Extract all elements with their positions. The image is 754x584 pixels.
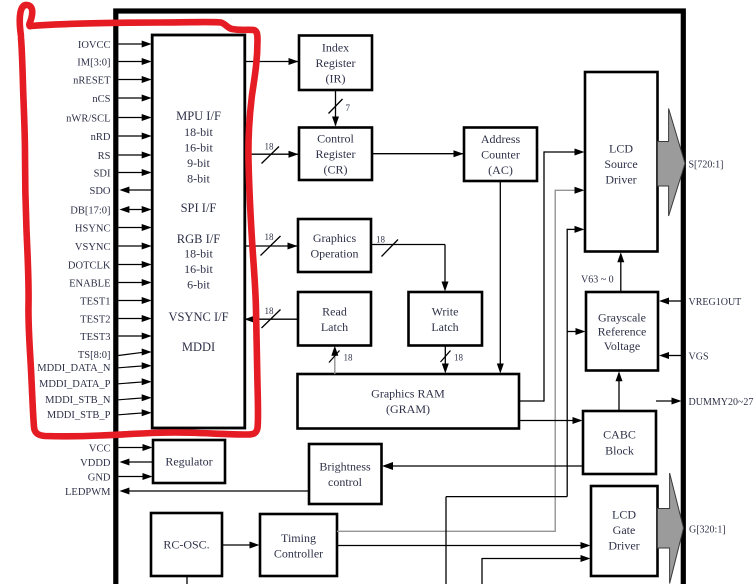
svg-text:VGS: VGS	[689, 352, 709, 363]
gray bus arrow G[320:1]	[658, 473, 684, 584]
wire RC-OSC. bottom stub	[186, 576, 188, 584]
bus slash 18 WL-GRAM	[441, 351, 451, 363]
svg-text:nRD: nRD	[91, 132, 111, 143]
svg-text:RC-OSC.: RC-OSC.	[163, 538, 209, 552]
bus slash 18 GO-WL	[382, 240, 399, 257]
wire GRAM to LCD Source Driver (via x=544)	[519, 400, 544, 402]
svg-text:TEST1: TEST1	[80, 297, 110, 308]
block Brightness control	[309, 444, 382, 504]
svg-text:18: 18	[454, 353, 464, 363]
wire pin VCC	[118, 447, 145, 449]
svg-text:IOVCC: IOVCC	[78, 40, 111, 51]
svg-text:18: 18	[344, 353, 354, 363]
svg-text:MDDI: MDDI	[182, 340, 215, 354]
svg-text:18: 18	[376, 235, 386, 245]
svg-text:nWR/SCL: nWR/SCL	[66, 114, 110, 125]
svg-text:S[720:1]: S[720:1]	[689, 160, 724, 171]
wire Timing Controller to LCD Source Driver (gray)	[337, 530, 555, 532]
wire Read Latch to MPU VSYNC I/F with 18-bus	[254, 318, 298, 320]
wire LEDPWM from Brightness control	[127, 490, 309, 492]
wire pin MDDI_STB_N	[118, 398, 144, 400]
svg-text:18: 18	[265, 306, 275, 316]
wire pin VDDD	[127, 461, 153, 463]
svg-text:TEST2: TEST2	[80, 315, 110, 326]
svg-text:LCDGateDriver: LCDGateDriver	[608, 508, 639, 553]
svg-text:ReadLatch: ReadLatch	[321, 304, 348, 334]
wire pin MDDI_STB_P	[118, 413, 144, 415]
wire MPU to Control Register with 18-bus	[245, 153, 291, 155]
block CABC Block	[583, 411, 656, 474]
wire pin IOVCC	[118, 43, 144, 45]
svg-text:18: 18	[265, 232, 275, 242]
wire Control Register to Address Counter	[372, 153, 455, 155]
svg-text:IM[3:0]: IM[3:0]	[77, 58, 110, 69]
wire DUMMY20~27 output	[656, 400, 675, 402]
wire lower net to LCD Gate Driver (via x=482)	[481, 558, 483, 584]
svg-text:MPU I/F: MPU I/F	[176, 109, 221, 123]
block Address Counter (AC)	[464, 128, 537, 182]
wire Graphics Operation to Write Latch with 18-bus	[371, 244, 445, 246]
svg-text:TimingController: TimingController	[274, 531, 323, 561]
svg-text:GrayscaleReferenceVoltage: GrayscaleReferenceVoltage	[598, 310, 647, 352]
svg-text:LCDSourceDriver: LCDSourceDriver	[604, 142, 637, 187]
svg-text:TS[8:0]: TS[8:0]	[78, 350, 111, 361]
svg-text:MDDI_STB_N: MDDI_STB_N	[45, 395, 111, 406]
block Graphics Operation	[298, 219, 371, 272]
wire pin RS	[118, 154, 144, 156]
wire pin IM[3:0]	[118, 61, 144, 63]
svg-text:RGB I/F: RGB I/F	[177, 232, 220, 246]
wire CABC Block to Grayscale Reference Voltage	[618, 377, 620, 411]
wire pin nWR/SCL	[118, 117, 144, 119]
wire pin VSYNC	[118, 245, 144, 247]
svg-text:V63 ~ 0: V63 ~ 0	[581, 275, 614, 286]
block LCD Source Driver	[585, 72, 658, 252]
wire pin nRESET	[118, 79, 144, 81]
block Timing Controller	[260, 514, 337, 576]
wire CABC Block to Brightness control	[391, 465, 583, 467]
wire RC-OSC. to Timing Controller	[222, 544, 252, 546]
wire Grayscale Reference Voltage to LCD Source Driver	[620, 258, 622, 292]
wire Address Counter to GRAM	[499, 181, 501, 367]
block MPU/SPI/RGB/VSYNC/MDDI interface	[152, 35, 245, 428]
wire GRAM to CABC Block	[519, 420, 575, 422]
svg-text:Regulator: Regulator	[165, 455, 212, 469]
svg-text:HSYNC: HSYNC	[75, 224, 111, 235]
wire GRAM to Read Latch with 18-bus	[334, 352, 336, 374]
bus slash 18 RL-MPU	[262, 310, 281, 329]
svg-text:nRESET: nRESET	[73, 76, 111, 87]
wire pin SDO	[127, 189, 152, 191]
svg-text:RS: RS	[98, 151, 111, 162]
wire pin TEST3	[118, 335, 144, 337]
svg-text:TEST3: TEST3	[80, 332, 110, 343]
svg-text:VDDD: VDDD	[80, 458, 111, 469]
svg-text:18-bit16-bit9-bit8-bit: 18-bit16-bit9-bit8-bit	[184, 125, 213, 185]
svg-text:MDDI_STB_P: MDDI_STB_P	[47, 410, 111, 421]
svg-text:SDO: SDO	[89, 186, 110, 197]
svg-text:nCS: nCS	[92, 94, 110, 105]
svg-text:SPI I/F: SPI I/F	[181, 201, 217, 215]
svg-text:MDDI_DATA_N: MDDI_DATA_N	[37, 363, 111, 374]
bus slash 18 GRAM-RL	[329, 351, 340, 363]
wire pin nCS	[118, 97, 144, 99]
bus slash 18 MPU-CR	[262, 147, 280, 164]
block Regulator	[153, 440, 225, 483]
svg-text:VREG1OUT: VREG1OUT	[689, 297, 742, 308]
block Grayscale Reference Voltage	[586, 292, 658, 371]
svg-text:DOTCLK: DOTCLK	[68, 261, 111, 272]
wire VGS input to Grayscale	[667, 355, 681, 357]
wire pin ENABLE	[118, 282, 144, 284]
block Control Register (CR)	[299, 128, 372, 181]
wire pin DB[17:0]	[126, 209, 144, 211]
svg-text:VCC: VCC	[89, 444, 111, 455]
block Graphics RAM (GRAM)	[298, 374, 520, 429]
wire pin MDDI_DATA_P	[118, 382, 144, 384]
wire MPU to Index Register	[245, 61, 291, 63]
wire pin TEST1	[118, 300, 144, 302]
wire Write Latch to GRAM with 18-bus	[444, 346, 446, 367]
svg-text:18: 18	[265, 142, 275, 152]
block Index Register (IR)	[299, 36, 372, 91]
wire pin MDDI_DATA_N	[118, 366, 144, 368]
wire MPU RGB to Graphics Operation with 18-bus	[245, 245, 290, 247]
svg-text:SDI: SDI	[94, 169, 111, 180]
wire pin GND	[118, 476, 145, 478]
svg-text:VSYNC I/F: VSYNC I/F	[168, 310, 228, 324]
svg-text:DUMMY20~27: DUMMY20~27	[689, 397, 754, 408]
svg-text:DB[17:0]: DB[17:0]	[70, 206, 110, 217]
bus slash 7 IR-CR	[329, 99, 343, 114]
svg-text:WriteLatch: WriteLatch	[431, 304, 458, 334]
svg-text:GraphicsOperation: GraphicsOperation	[311, 231, 359, 260]
wire Timing Controller to LCD Gate Driver	[337, 545, 583, 547]
svg-text:MDDI_DATA_P: MDDI_DATA_P	[39, 379, 111, 390]
wire branch to Grayscale Reference Voltage input	[567, 331, 578, 333]
wire lower net to LCD Source Driver and Grayscale (via x=567)	[567, 228, 577, 230]
bus slash 18 RGB-GO	[261, 236, 281, 256]
block Read Latch	[298, 292, 371, 346]
wire VREG1OUT input to Grayscale	[667, 300, 681, 302]
wire pin nRD	[118, 135, 144, 137]
wire pin DOTCLK	[118, 264, 144, 266]
svg-text:G[320:1]: G[320:1]	[689, 525, 726, 536]
gray bus arrow S[720:1]	[658, 109, 686, 217]
svg-text:LEDPWM: LEDPWM	[65, 487, 111, 498]
wire pin TEST2	[118, 318, 144, 320]
wire pin TS[8:0]	[118, 352, 144, 355]
svg-text:ENABLE: ENABLE	[69, 279, 110, 290]
hand-drawn red marker loop around interface pins and MPU block	[20, 5, 258, 436]
chip outline border	[116, 11, 684, 584]
wire Index Register to Control Register with 7-bus	[335, 90, 337, 126]
block Write Latch	[409, 292, 483, 346]
svg-text:GND: GND	[88, 473, 111, 484]
block LCD Gate Driver	[591, 486, 658, 576]
svg-text:18-bit16-bit6-bit: 18-bit16-bit6-bit	[184, 247, 213, 292]
wire lower net horizontal y=496 and down at x=446	[446, 496, 567, 498]
svg-text:7: 7	[346, 103, 351, 113]
wire pin SDI	[118, 172, 144, 174]
svg-text:VSYNC: VSYNC	[75, 242, 111, 253]
block RC-OSC.	[151, 513, 222, 576]
wire pin HSYNC	[118, 227, 144, 229]
